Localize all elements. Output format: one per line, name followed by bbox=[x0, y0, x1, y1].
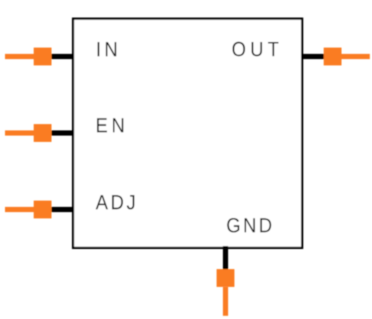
node IN port square bbox=[34, 48, 52, 66]
pin IN stub bbox=[50, 54, 74, 59]
pin OUT stub bbox=[301, 54, 325, 59]
wire to ADJ port bbox=[5, 207, 35, 212]
node ADJ port square bbox=[34, 201, 52, 219]
node OUT port square bbox=[324, 48, 342, 66]
component body: regulator box bbox=[73, 19, 302, 248]
pin ADJ stub bbox=[50, 207, 74, 212]
pin EN stub bbox=[50, 130, 74, 135]
wire to EN port bbox=[5, 130, 35, 135]
pin label EN bbox=[97, 118, 123, 132]
node GND port square bbox=[217, 269, 235, 287]
wire from OUT port bbox=[341, 54, 370, 59]
pin label IN bbox=[98, 42, 117, 56]
node EN port square bbox=[34, 124, 52, 142]
wire from GND port bbox=[223, 287, 228, 316]
pin label ADJ bbox=[96, 195, 135, 209]
pin label OUT bbox=[233, 42, 279, 57]
wire to IN port bbox=[5, 54, 35, 59]
pin GND stub bbox=[223, 246, 228, 270]
pin label GND bbox=[227, 218, 271, 233]
